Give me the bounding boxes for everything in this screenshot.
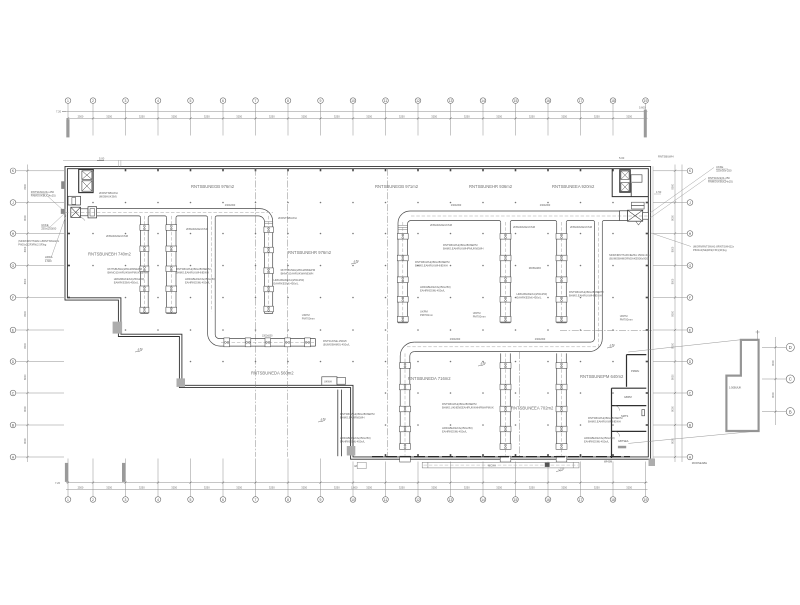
svg-text:3250: 3250 (106, 485, 112, 489)
svg-text:3250: 3250 (529, 114, 535, 118)
svg-text:2FRNTSBUWH: 2FRNTSBUWH (278, 216, 297, 220)
svg-text:HRDA: HRDA (45, 255, 53, 259)
svg-text:UKPM: UKPM (473, 311, 482, 315)
svg-text:1:50: 1:50 (354, 260, 359, 263)
svg-text:8000: 8000 (24, 438, 27, 444)
svg-text:3250: 3250 (269, 485, 275, 489)
svg-text:3250: 3250 (366, 485, 372, 489)
svg-text:HRDABHKEXA(250x250): HRDABHKEXA(250x250) (340, 436, 371, 440)
svg-text:UKKE: UKKE (716, 165, 724, 169)
svg-text:3250: 3250 (204, 485, 210, 489)
svg-text:8000: 8000 (772, 360, 775, 366)
svg-text:RNTSBUNEEA 702m2: RNTSBUNEEA 702m2 (511, 406, 554, 411)
svg-text:3250: 3250 (626, 114, 632, 118)
svg-text:1:50: 1:50 (321, 418, 326, 421)
svg-text:19: 19 (644, 498, 648, 502)
svg-text:8000: 8000 (24, 246, 27, 252)
svg-text:2FBHDAKEUKSM: 2FBHDAKEUKSM (513, 225, 536, 229)
svg-text:3250: 3250 (236, 485, 242, 489)
svg-text:8000: 8000 (672, 438, 675, 444)
svg-text:RNTSFAN(24-250: RNTSFAN(24-250 (708, 176, 730, 180)
svg-text:8000: 8000 (24, 278, 27, 284)
svg-text:7: 7 (255, 498, 257, 502)
svg-text:RNTSBUNEDA 716m2: RNTSBUNEDA 716m2 (408, 376, 451, 381)
svg-text:3250: 3250 (366, 114, 372, 118)
svg-text:RNTSBUNEGB 976m2: RNTSBUNEGB 976m2 (191, 184, 235, 189)
svg-text:16: 16 (546, 498, 550, 502)
svg-text:3250: 3250 (204, 114, 210, 118)
svg-text:3: 3 (125, 498, 127, 502)
svg-text:3250: 3250 (171, 114, 177, 118)
svg-text:WHSM: WHSM (604, 460, 612, 464)
svg-text:6: 6 (222, 99, 224, 103)
svg-text:18: 18 (611, 498, 615, 502)
svg-text:2300x800: 2300x800 (225, 204, 236, 207)
svg-text:8: 8 (287, 498, 289, 502)
svg-text:8000: 8000 (672, 183, 675, 189)
svg-text:BHMO,EAHRNEWH: BHMO,EAHRNEWH (340, 416, 365, 420)
svg-text:3250: 3250 (399, 114, 405, 118)
svg-text:3250: 3250 (139, 114, 145, 118)
svg-text:C: C (789, 377, 792, 382)
svg-text:MOBHMO: MOBHMO (529, 266, 541, 270)
svg-text:G: G (689, 264, 692, 268)
svg-text:3250: 3250 (334, 114, 340, 118)
svg-text:3250: 3250 (561, 114, 567, 118)
svg-text:PM700mm: PM700mm (302, 317, 316, 321)
svg-text:3250: 3250 (301, 485, 307, 489)
svg-text:4: 4 (157, 99, 159, 103)
svg-text:2FBHDAKEUKSM: 2FBHDAKEUKSM (570, 225, 593, 229)
svg-text:10: 10 (351, 99, 355, 103)
svg-text:PM700mm: PM700mm (473, 315, 487, 319)
svg-text:GBPM: GBPM (624, 395, 632, 399)
svg-text:RNTSBUNEEA 920m2: RNTSBUNEEA 920m2 (552, 184, 595, 189)
svg-text:RNTSBUWH(280x280NEPM: RNTSBUWH(280x280NEPM (442, 402, 477, 406)
svg-text:18: 18 (611, 99, 615, 103)
svg-text:RNTSBUWH(280x280NEPM: RNTSBUWH(280x280NEPM (340, 412, 375, 416)
svg-text:8000: 8000 (672, 278, 675, 284)
svg-text:PMWH: PMWH (631, 369, 639, 373)
svg-text:3250: 3250 (464, 114, 470, 118)
svg-text:2FBHDAKEUKSM: 2FBHDAKEUKSM (106, 234, 129, 238)
svg-text:P600x2(NE)RN(2.5F)(2F)kg: P600x2(NE)RN(2.5F)(2F)kg (693, 248, 727, 252)
svg-text:RNTSBUNEHR 936m2: RNTSBUNEHR 936m2 (469, 184, 513, 189)
svg-text:(MORNRNTSWH1-8RNTSWH22x: (MORNRNTSWH1-8RNTSWH22x (693, 245, 735, 249)
svg-text:8000: 8000 (24, 406, 27, 412)
svg-text:UKWH: UKWH (324, 380, 332, 383)
svg-text:13: 13 (449, 99, 453, 103)
svg-text:9: 9 (320, 498, 322, 502)
svg-text:EAHRKESM(-450x/L: EAHRKESM(-450x/L (185, 281, 210, 285)
svg-text:3250: 3250 (594, 485, 600, 489)
svg-text:1:50: 1:50 (138, 348, 143, 351)
svg-text:EAHRKESM(-450x/L: EAHRKESM(-450x/L (584, 440, 609, 444)
svg-text:15: 15 (514, 99, 518, 103)
svg-text:RNTSBUNEBH 740m2: RNTSBUNEBH 740m2 (88, 252, 131, 257)
svg-text:RNTSBUWH(280x280NEPM: RNTSBUWH(280x280NEPM (108, 267, 143, 271)
svg-text:HRDABHKEXA(250x250): HRDABHKEXA(250x250) (442, 426, 473, 430)
svg-text:8000: 8000 (672, 342, 675, 348)
svg-text:(BUMOBHMORNDAKE900x900): (BUMOBHMORNDAKE900x900) (609, 257, 649, 261)
svg-text:14: 14 (481, 498, 485, 502)
svg-text:8000: 8000 (672, 310, 675, 316)
svg-text:RNTSBUWH(280x280NEPM: RNTSBUWH(280x280NEPM (588, 416, 623, 420)
svg-text:BHMO,EAHRUKWHNEWH: BHMO,EAHRUKWHNEWH (281, 272, 314, 276)
svg-text:D: D (789, 345, 792, 350)
svg-text:(MORNRNTSWH1-8RNTSWH22x: (MORNRNTSWH1-8RNTSWH22x (18, 239, 60, 243)
svg-text:EAHRKESM(-450x/L: EAHRKESM(-450x/L (420, 289, 445, 293)
svg-text:PM700mm: PM700mm (420, 313, 434, 317)
svg-text:5: 5 (190, 498, 192, 502)
svg-text:UKKE: UKKE (41, 223, 49, 227)
svg-text:BHMO,EAHRUKWHNEWH: BHMO,EAHRUKWHNEWH (176, 271, 209, 275)
svg-text:7.20: 7.20 (55, 481, 61, 485)
svg-text:1500x500: 1500x500 (262, 334, 273, 337)
svg-text:GBTSEA: GBTSEA (618, 439, 629, 443)
svg-text:1: 1 (67, 498, 69, 502)
svg-text:3250: 3250 (236, 114, 242, 118)
svg-text:P600x2(2F)RN(2.5F)kg: P600x2(2F)RN(2.5F)kg (18, 243, 46, 247)
svg-text:1:50: 1:50 (560, 468, 565, 471)
svg-text:RNTSBUNEGB 971m2: RNTSBUNEGB 971m2 (375, 184, 419, 189)
svg-text:3250: 3250 (594, 114, 600, 118)
svg-text:1.600: 1.600 (351, 485, 358, 489)
svg-text:HRDABHKEXA(250x250): HRDABHKEXA(250x250) (517, 292, 548, 296)
svg-text:3250: 3250 (561, 485, 567, 489)
svg-text:14: 14 (481, 99, 485, 103)
svg-text:7: 7 (255, 99, 257, 103)
svg-text:3250: 3250 (496, 114, 502, 118)
svg-text:5: 5 (190, 99, 192, 103)
svg-text:8000: 8000 (24, 215, 27, 221)
svg-text:2: 2 (92, 498, 94, 502)
svg-text:2: 2 (92, 99, 94, 103)
svg-text:BHMO,EAHRUKWHPMUKNEWH: BHMO,EAHRUKWHPMUKNEWH (443, 247, 484, 251)
svg-text:EAHRKESM(-450x/L: EAHRKESM(-450x/L (517, 296, 542, 300)
svg-text:2500: 2500 (78, 114, 84, 118)
svg-text:5.00: 5.00 (99, 157, 105, 161)
svg-text:8000: 8000 (24, 183, 27, 189)
svg-text:UKPM: UKPM (302, 313, 311, 317)
svg-text:11: 11 (384, 498, 388, 502)
svg-text:BHMO,EAHRUKWHNEWH: BHMO,EAHRUKWHNEWH (415, 264, 448, 268)
svg-text:4: 4 (157, 498, 159, 502)
svg-text:B: B (789, 409, 792, 414)
svg-text:16: 16 (546, 99, 550, 103)
svg-text:2300x800: 2300x800 (540, 204, 551, 207)
svg-text:5.600: 5.600 (639, 106, 646, 110)
svg-text:RNTSBUNEDA 560m2: RNTSBUNEDA 560m2 (251, 371, 294, 376)
svg-text:5.00: 5.00 (619, 156, 625, 160)
svg-text:RNTSBUWH(280x280NEPM: RNTSBUWH(280x280NEPM (415, 260, 450, 264)
svg-text:EAHRKESM(-450x/L: EAHRKESM(-450x/L (340, 440, 365, 444)
svg-text:17: 17 (579, 498, 583, 502)
svg-text:J: J (12, 201, 14, 205)
svg-text:3250: 3250 (106, 114, 112, 118)
svg-text:PM700mm: PM700mm (620, 318, 634, 322)
svg-text:BHMO,EAHRUKWHNEWH: BHMO,EAHRUKWHNEWH (569, 294, 602, 298)
svg-text:19: 19 (644, 99, 648, 103)
svg-text:RNTSBUWH(280x280NEPM: RNTSBUWH(280x280NEPM (176, 267, 211, 271)
svg-text:3250: 3250 (301, 114, 307, 118)
svg-text:8000: 8000 (672, 215, 675, 221)
svg-text:1: 1 (67, 99, 69, 103)
svg-text:MORNEABH: MORNEABH (692, 461, 708, 465)
svg-text:UKPM: UKPM (620, 314, 629, 318)
svg-text:10: 10 (351, 498, 355, 502)
svg-text:9: 9 (320, 99, 322, 103)
svg-text:(MOBHUKSM): (MOBHUKSM) (99, 195, 117, 199)
svg-text:BHMO,EAHRUKWHNEWH: BHMO,EAHRUKWHNEWH (588, 420, 621, 424)
svg-text:(BUMOBHMO)-450x/L: (BUMOBHMO)-450x/L (323, 343, 350, 347)
svg-text:8000: 8000 (672, 374, 675, 380)
svg-text:F: F (689, 296, 691, 300)
svg-text:8000: 8000 (24, 374, 27, 380)
svg-text:8000: 8000 (24, 342, 27, 348)
svg-text:RNTSUKNE-1500/h: RNTSUKNE-1500/h (323, 339, 347, 343)
svg-text:1:50: 1:50 (610, 344, 615, 347)
svg-text:3250: 3250 (171, 485, 177, 489)
svg-text:17: 17 (579, 99, 583, 103)
svg-text:3250: 3250 (529, 485, 535, 489)
svg-text:15: 15 (514, 498, 518, 502)
svg-text:EAHRKESM(-450x/L: EAHRKESM(-450x/L (114, 281, 139, 285)
svg-text:J: J (689, 201, 691, 205)
svg-text:EAHRKESM(-450x/L: EAHRKESM(-450x/L (274, 282, 299, 286)
svg-text:3250: 3250 (399, 485, 405, 489)
svg-text:G: G (12, 264, 15, 268)
svg-text:UKPM: UKPM (420, 310, 429, 314)
svg-text:3250: 3250 (431, 485, 437, 489)
svg-text:3250: 3250 (334, 485, 340, 489)
svg-text:RNTSBUWH: RNTSBUWH (658, 155, 674, 159)
svg-text:8000: 8000 (24, 310, 27, 316)
svg-text:3250: 3250 (464, 485, 470, 489)
svg-text:3: 3 (125, 99, 127, 103)
svg-text:1:50: 1:50 (656, 190, 662, 194)
svg-text:RNTSBUWH(280x280NEPM: RNTSBUWH(280x280NEPM (443, 243, 478, 247)
svg-text:3250: 3250 (269, 114, 275, 118)
svg-text:1:50BUUK: 1:50BUUK (729, 386, 742, 390)
svg-text:3250: 3250 (139, 485, 145, 489)
svg-text:RNTSBUWH(280x280NEPM: RNTSBUWH(280x280NEPM (281, 268, 316, 272)
svg-text:320x30x-250: 320x30x-250 (716, 169, 732, 173)
svg-text:2FBHDAKEUKSM: 2FBHDAKEUKSM (430, 223, 453, 227)
svg-text:MOXA: MOXA (488, 464, 496, 468)
svg-text:RNTSBUNEHR 976m2: RNTSBUNEHR 976m2 (288, 250, 332, 255)
svg-text:RNMOUKBU(24x25): RNMOUKBU(24x25) (31, 194, 56, 198)
svg-text:8000: 8000 (672, 406, 675, 412)
svg-text:250x(250)50: 250x(250)50 (41, 226, 57, 230)
svg-text:HRDABHKEXA(250x250): HRDABHKEXA(250x250) (274, 278, 305, 282)
svg-text:2300x800: 2300x800 (450, 338, 461, 341)
svg-text:HRDABHKEXA(250x250): HRDABHKEXA(250x250) (114, 277, 145, 281)
svg-text:HRDABHKEXA(250x250): HRDABHKEXA(250x250) (420, 285, 451, 289)
svg-text:2300x800: 2300x800 (535, 338, 546, 341)
svg-text:HRDABHKEXA(250x250): HRDABHKEXA(250x250) (584, 436, 615, 440)
svg-text:2500: 2500 (78, 485, 84, 489)
svg-text:RNTSBUNEPM 640m2: RNTSBUNEPM 640m2 (580, 374, 624, 379)
svg-text:EAHRKESM(-450x/L: EAHRKESM(-450x/L (442, 430, 467, 434)
svg-text:3250: 3250 (431, 114, 437, 118)
svg-text:RNTSBUWH(280x280NEPM: RNTSBUWH(280x280NEPM (569, 290, 604, 294)
svg-text:13: 13 (449, 498, 453, 502)
svg-text:2300x800: 2300x800 (451, 204, 462, 207)
svg-text:MORNRNTSUKNE25A 1500m3/h: MORNRNTSUKNE25A 1500m3/h (609, 253, 650, 257)
svg-text:F: F (12, 296, 14, 300)
svg-text:11: 11 (384, 99, 388, 103)
svg-text:1:600: 1:600 (45, 259, 52, 263)
svg-text:8000: 8000 (672, 246, 675, 252)
svg-text:12: 12 (416, 498, 420, 502)
svg-text:RNTSFAN(24x-250: RNTSFAN(24x-250 (31, 190, 55, 194)
svg-text:12: 12 (416, 99, 420, 103)
svg-text:3250: 3250 (496, 485, 502, 489)
svg-text:2FRNTSBUWH: 2FRNTSBUWH (99, 191, 118, 195)
svg-text:RNMOUKBU(24x25): RNMOUKBU(24x25) (708, 180, 733, 184)
svg-text:1:50: 1:50 (481, 362, 486, 365)
svg-text:3250: 3250 (626, 485, 632, 489)
svg-text:2FBHDAKEUKSM: 2FBHDAKEUKSM (186, 227, 209, 231)
svg-text:8000: 8000 (772, 392, 775, 398)
svg-text:7.20: 7.20 (56, 109, 62, 113)
svg-text:BHMO,UKNENEEAHRUKWHHRWHPMUK: BHMO,UKNENEEAHRUKWHHRWHPMUK (442, 406, 494, 410)
svg-text:8: 8 (287, 99, 289, 103)
svg-text:6: 6 (222, 498, 224, 502)
svg-text:BHMO,EAHRUKWHPMUKNEWH: BHMO,EAHRUKWHPMUKNEWH (108, 271, 149, 275)
svg-text:HRDABHKEXA(250x250): HRDABHKEXA(250x250) (185, 277, 216, 281)
